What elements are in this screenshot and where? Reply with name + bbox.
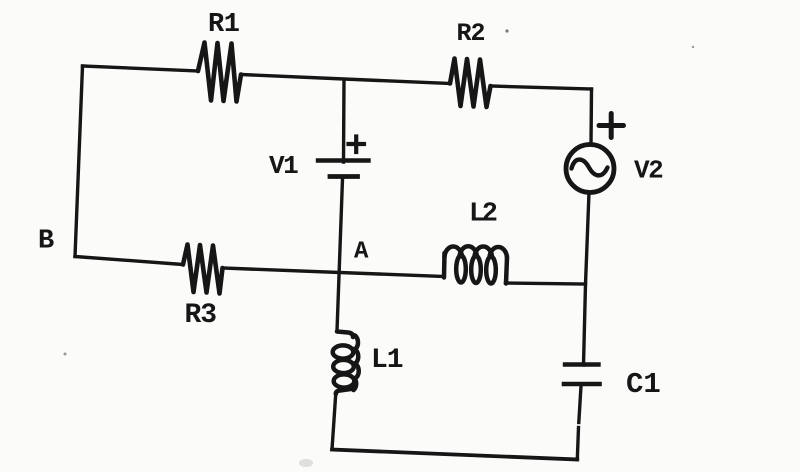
svg-text:R3: R3 (185, 300, 217, 331)
svg-text:L1: L1 (371, 345, 403, 376)
svg-text:R2: R2 (457, 19, 485, 48)
svg-text:C1: C1 (626, 368, 661, 401)
svg-text:L2: L2 (469, 200, 497, 230)
svg-text:R1: R1 (208, 10, 240, 40)
svg-text:V2: V2 (634, 156, 663, 186)
svg-text:V1: V1 (269, 151, 298, 181)
svg-text:B: B (38, 227, 54, 257)
svg-text:A: A (354, 239, 369, 266)
